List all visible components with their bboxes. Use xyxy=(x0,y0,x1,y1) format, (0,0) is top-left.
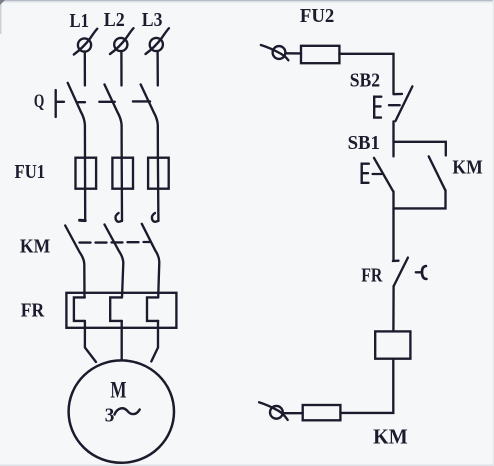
wire SB2 to SB1 xyxy=(392,121,394,156)
button SB1 operator dash xyxy=(373,173,382,175)
wire branch to KM aux xyxy=(394,142,446,156)
contactor KM pole 3 blade and wire to FR xyxy=(142,224,160,298)
wire fuse3 to KM contact xyxy=(157,158,160,221)
fuse FU1 pole 1 xyxy=(76,158,97,189)
svg-text:M: M xyxy=(110,378,126,403)
terminal top-right slash xyxy=(261,45,289,60)
svg-text:SB1: SB1 xyxy=(348,132,380,154)
svg-text:KM: KM xyxy=(452,156,482,178)
contactor KM pole 1 fixed-contact tick xyxy=(80,219,86,222)
contact FR actuator hook xyxy=(422,266,427,279)
wire L1 to Q xyxy=(84,52,86,86)
terminal bottom-right slash xyxy=(259,402,288,420)
contact FR fixed tick xyxy=(393,260,399,263)
wire fuse1 to KM contact xyxy=(84,158,87,221)
contactor KM linkage dashes xyxy=(80,241,91,243)
coil KM xyxy=(375,331,410,358)
wire SB1 down through junction to FR contact xyxy=(392,192,394,261)
svg-text:KM: KM xyxy=(20,235,50,257)
svg-text:L2: L2 xyxy=(104,9,125,31)
terminal bottom-right circle xyxy=(270,406,283,419)
wire coil to bottom corner xyxy=(340,359,393,413)
terminal L2 slash xyxy=(110,28,134,54)
wire L2 to Q xyxy=(120,51,122,86)
svg-text:KM: KM xyxy=(373,424,408,448)
svg-text:FR: FR xyxy=(21,300,45,322)
wire fuse2 to KM contact xyxy=(121,158,124,221)
wire FR to motor phase 3 xyxy=(151,321,158,362)
svg-text:L3: L3 xyxy=(142,9,163,31)
contactor KM pole 2 fixed-contact hook xyxy=(115,213,122,222)
contact KM aux blade xyxy=(429,156,446,190)
thermal relay FR heater element 1 xyxy=(74,297,85,321)
terminal top-right circle xyxy=(273,46,286,59)
switch Q operating bar xyxy=(55,90,57,117)
svg-text:FU1: FU1 xyxy=(15,161,46,183)
svg-text:FU2: FU2 xyxy=(300,5,334,27)
terminal L2 circle xyxy=(114,38,127,51)
switch Q pole 3 blade and wire to fuse xyxy=(141,85,158,158)
wire L3 to Q xyxy=(156,51,159,86)
thermal relay FR outer box xyxy=(66,293,176,328)
motor M circle xyxy=(69,360,174,462)
fuse FU1 pole 3 xyxy=(148,158,169,189)
wire FU2 to corner and down to SB2 xyxy=(339,54,393,94)
thermal relay FR heater element 2 xyxy=(110,297,122,321)
terminal L3 slash xyxy=(146,28,170,54)
button SB1 blade xyxy=(374,158,393,192)
motor tilde xyxy=(115,408,140,414)
fuse FU2 xyxy=(301,46,339,63)
contact FR blade xyxy=(394,258,408,286)
wire terminal to FU2 xyxy=(285,52,301,54)
svg-text:FR: FR xyxy=(361,265,383,287)
svg-text:SB2: SB2 xyxy=(350,69,380,91)
contactor KM pole 1 blade and wire to FR xyxy=(65,226,84,298)
contact FR actuator dash xyxy=(416,271,422,273)
scan artifact top edge xyxy=(0,0,494,1)
thermal relay FR heater element 3 xyxy=(147,297,158,321)
terminal L1 slash xyxy=(74,29,98,55)
switch Q pole 1 blade and wire to fuse xyxy=(68,83,85,158)
contactor KM pole 2 blade and wire to FR xyxy=(105,225,124,298)
wire fuse to bottom terminal xyxy=(285,412,303,414)
wire FR to motor phase 1 xyxy=(85,321,96,362)
button SB2 blade xyxy=(395,86,412,121)
svg-text:3: 3 xyxy=(105,405,115,427)
button SB2 operator E xyxy=(374,97,381,118)
fuse FU1 pole 2 xyxy=(112,158,133,189)
wire FR contact to coil xyxy=(392,286,395,331)
switch Q pole 2 blade and wire to fuse xyxy=(105,85,122,158)
terminal L3 circle xyxy=(150,38,163,51)
button SB1 operator E xyxy=(362,164,369,183)
wire FR to motor phase 2 xyxy=(121,321,123,360)
button SB2 fixed tick xyxy=(394,93,403,96)
terminal L1 circle xyxy=(78,38,91,51)
fuse bottom xyxy=(303,405,341,420)
wire KM aux to junction xyxy=(394,190,446,208)
svg-text:Q: Q xyxy=(34,92,44,112)
button SB2 operator dash xyxy=(389,104,400,106)
svg-text:L1: L1 xyxy=(70,10,90,32)
switch Q linkage dashes xyxy=(57,101,64,103)
contactor KM pole 3 fixed-contact hook xyxy=(152,213,159,222)
